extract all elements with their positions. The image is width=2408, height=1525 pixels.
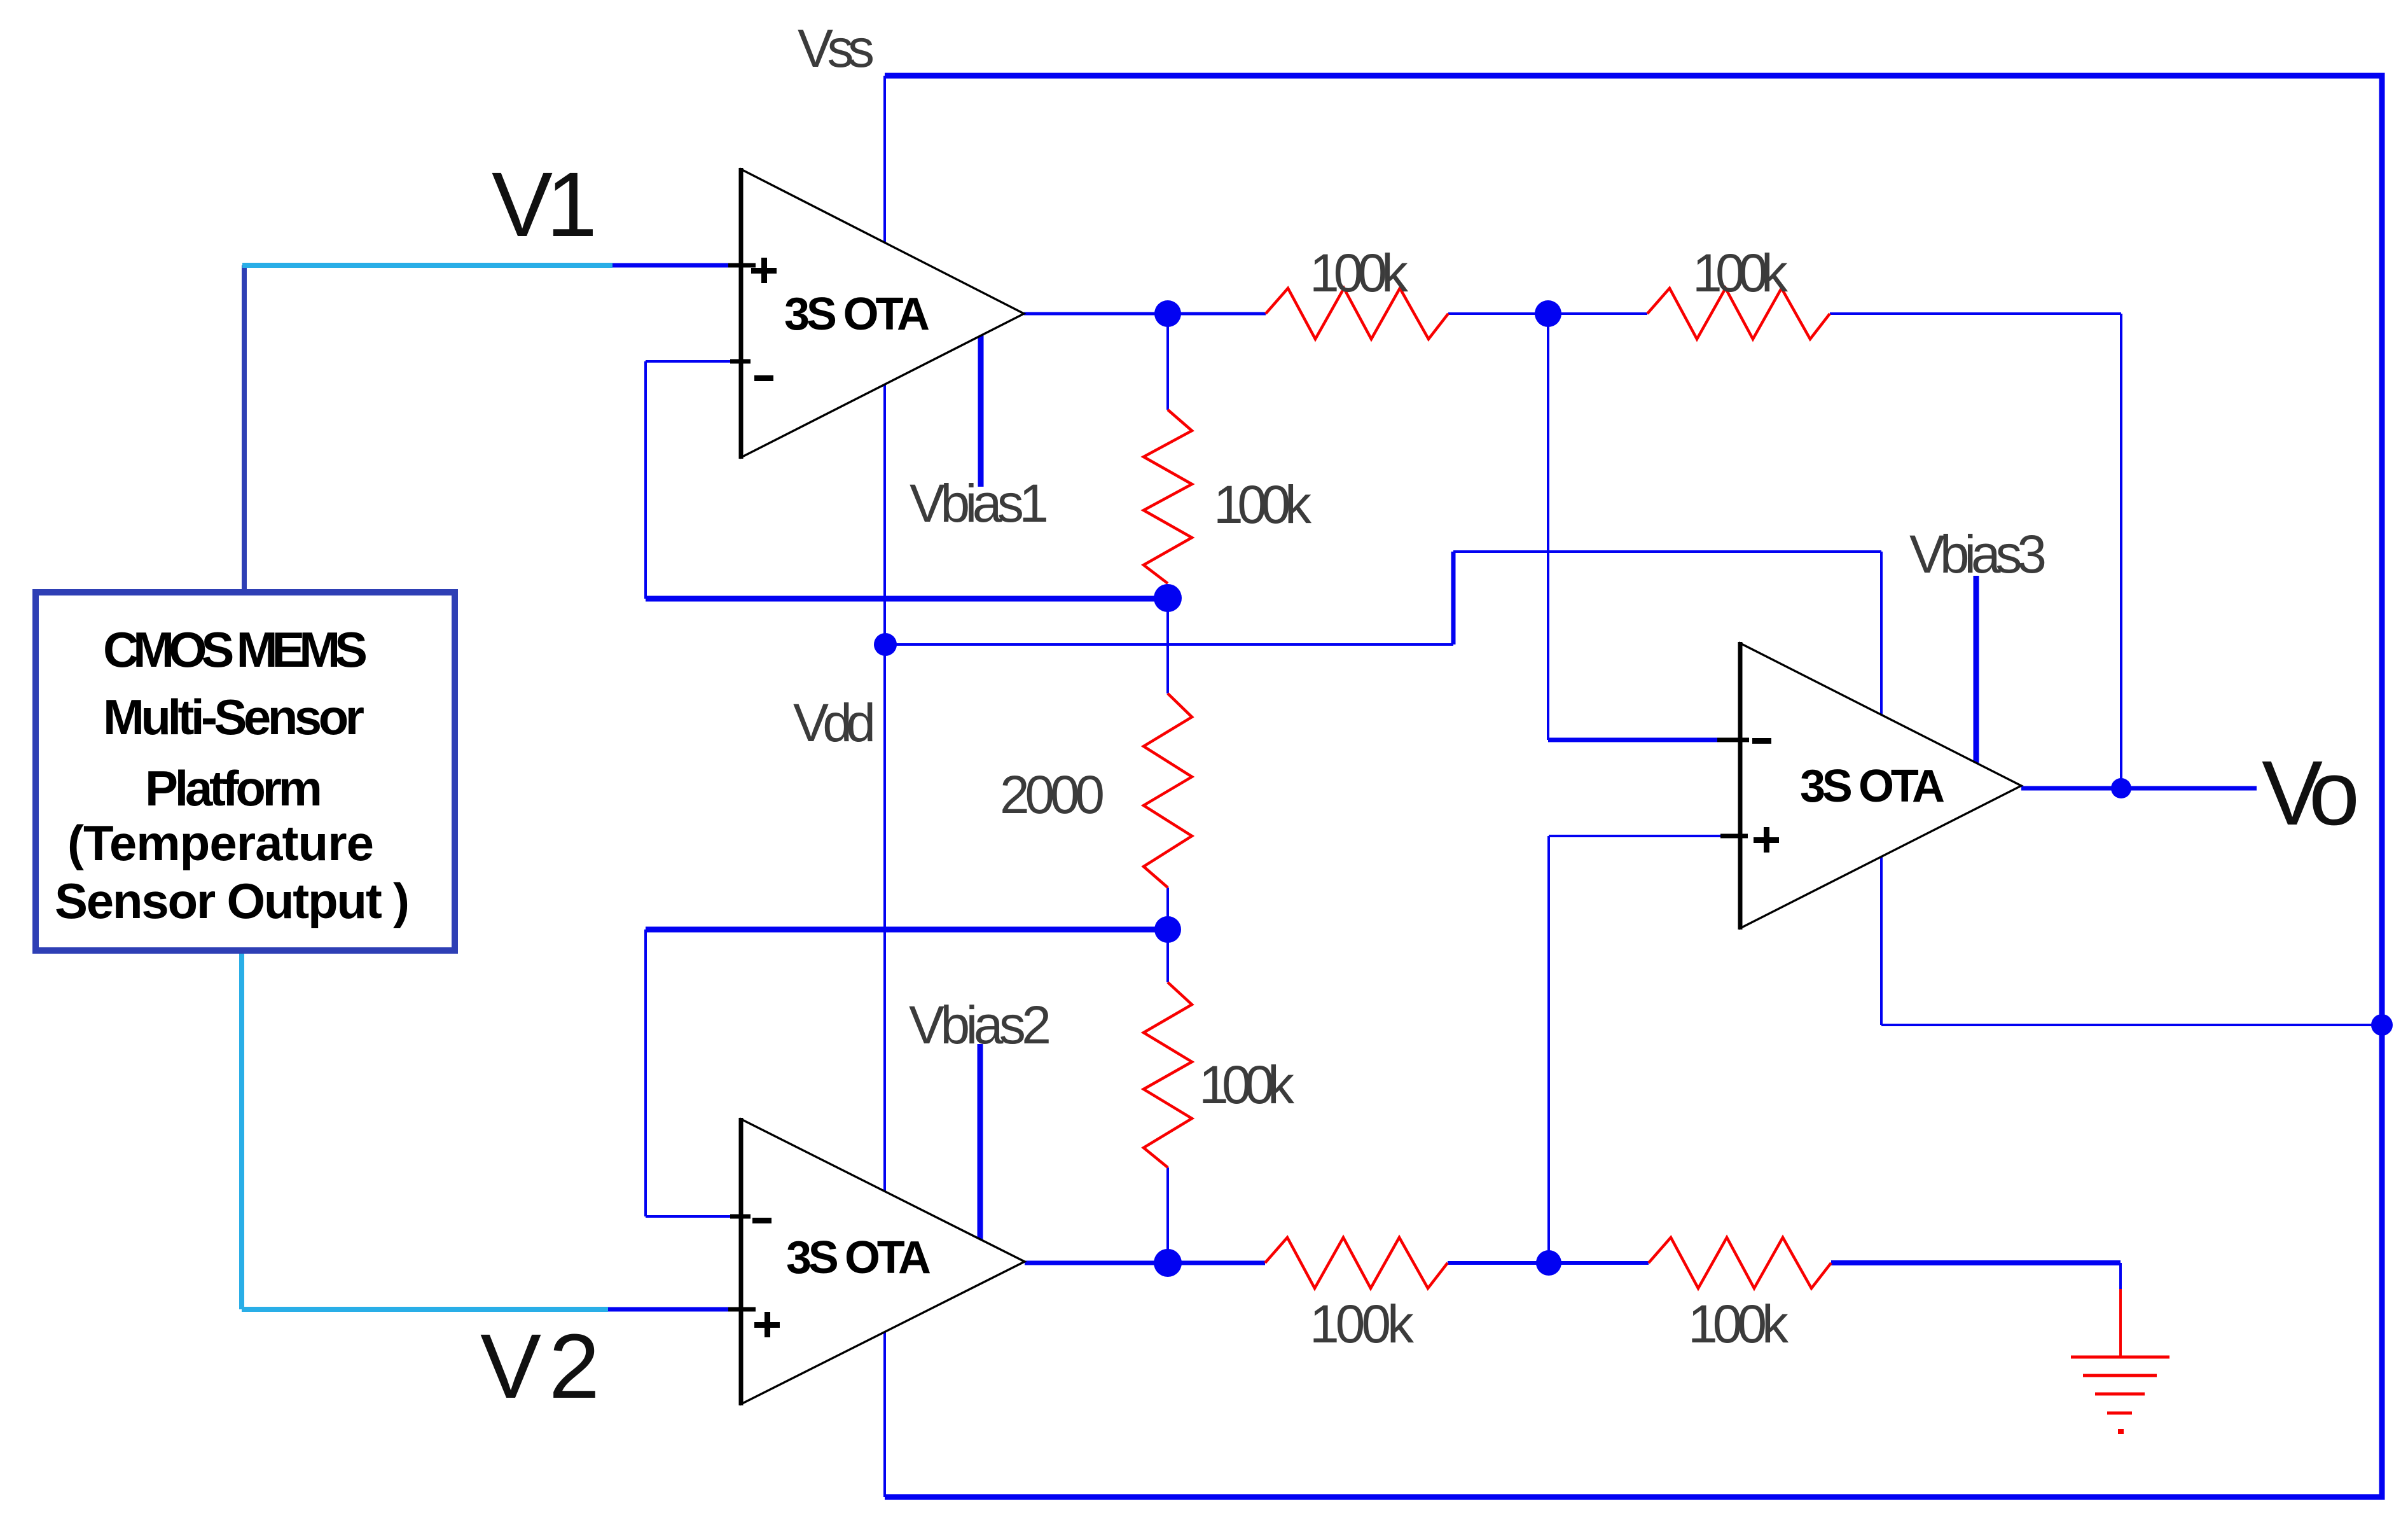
svg-text:Vo: Vo (2262, 742, 2360, 844)
svg-text:Vbias1: Vbias1 (910, 473, 1049, 533)
svg-text:100k: 100k (1310, 243, 1409, 303)
svg-text:3S OTA: 3S OTA (784, 289, 930, 340)
svg-text:Vbias3: Vbias3 (1909, 524, 2047, 584)
svg-text:Vdd: Vdd (793, 693, 876, 753)
svg-text:V2: V2 (480, 1315, 600, 1417)
svg-text:100k: 100k (1692, 243, 1789, 303)
svg-text:V1: V1 (492, 153, 597, 256)
svg-text:100k: 100k (1214, 475, 1312, 534)
svg-text:Vss: Vss (798, 18, 875, 78)
svg-text:100k: 100k (1688, 1294, 1789, 1354)
svg-text:100k: 100k (1310, 1294, 1415, 1354)
svg-text:3S OTA: 3S OTA (1800, 761, 1945, 812)
svg-text:100k: 100k (1199, 1055, 1295, 1115)
svg-text:2000: 2000 (1000, 765, 1105, 825)
svg-text:Platform: Platform (145, 760, 322, 816)
svg-text:Vbias2: Vbias2 (909, 995, 1051, 1055)
svg-text:CMOS MEMS: CMOS MEMS (103, 622, 368, 678)
svg-text:3S OTA: 3S OTA (786, 1232, 931, 1283)
svg-text:Sensor Output ): Sensor Output ) (55, 873, 410, 929)
svg-text:Multi-Sensor: Multi-Sensor (103, 689, 364, 745)
svg-text:(Temperature: (Temperature (67, 815, 374, 871)
